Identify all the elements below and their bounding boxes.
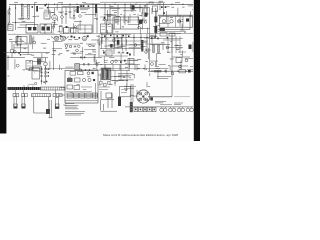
svg-text:MW: MW: [116, 32, 119, 34]
svg-text:Masa Jotni M radiovevokeszulek: Masa Jotni M radiovevokeszulek Elektrot-…: [103, 133, 179, 137]
